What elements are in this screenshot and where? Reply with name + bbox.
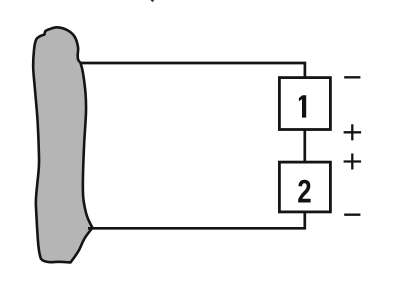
stray mark (cropped glyph at top edge) [151,0,155,2]
wire: link between terminal 1 and terminal 2 [303,128,306,163]
wire: top run from device to terminal 1 [80,63,305,78]
polarity mark: plus at terminal 1 bottom [344,124,362,140]
polarity mark: plus at terminal 2 top [344,154,362,170]
device body (gray hand-drawn blob) [33,27,92,262]
pin label 1 [299,95,306,117]
terminal block 2 [279,162,330,212]
pin label 2 [298,180,310,203]
terminal block 1 [279,78,330,130]
polarity mark: minus at terminal 2 bottom [344,214,360,216]
wire: bottom run from terminal 2 back to device [88,210,305,228]
polarity mark: minus at terminal 1 top [344,76,360,78]
